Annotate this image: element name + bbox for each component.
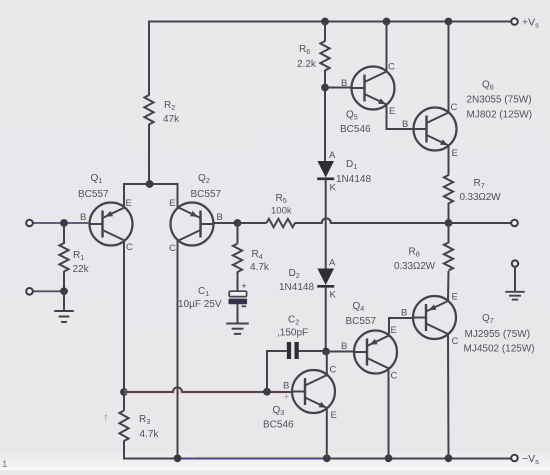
transistor Q4 BC557 [354,331,397,374]
wire -Vs bottom rail left purple tinted segment [195,456,330,459]
svg-text:↑: ↑ [103,412,109,424]
svg-text:R6: R6 [299,44,310,56]
wire Q2 base to R4/R5 node [214,222,241,224]
svg-text:1N4148: 1N4148 [279,282,314,293]
transistor Q7 MJ2955 [413,296,456,339]
svg-text:B: B [401,308,407,319]
svg-text:R1: R1 [73,250,84,262]
resistor R2 [144,95,153,125]
wire R6 top lead [324,22,326,42]
svg-text:Q6: Q6 [482,80,494,92]
svg-text:BC557: BC557 [346,316,377,327]
svg-text:MJ2955 (75W): MJ2955 (75W) [465,329,531,340]
diode D1 1N4148 [317,161,334,178]
svg-text:Q5: Q5 [346,110,358,122]
svg-text:MJ4502 (125W): MJ4502 (125W) [464,344,535,355]
svg-text:+: + [284,392,289,401]
wire R1 top lead [63,223,65,244]
svg-text:K: K [330,290,337,301]
svg-text:BC557: BC557 [191,189,222,200]
node Q2C on rail [174,454,182,462]
node R1/ground junction [60,287,68,295]
wire R2 bottom to emitter bus [148,124,150,184]
svg-text:B: B [402,119,408,130]
resistor R4 4.7k [233,244,242,273]
svg-text:D1: D1 [346,159,357,171]
wire R3 bottom lead [123,441,125,459]
svg-text:0.33Ω2W: 0.33Ω2W [460,192,502,203]
wire D2 cathode to Q4 base node [325,287,327,353]
wire R5 left lead [238,222,267,224]
svg-text:,150pF: ,150pF [277,328,308,339]
wire Q1 emitter riser [123,183,125,208]
diode D2 1N4148 [317,269,334,286]
capacitor C2 150pF [287,342,291,359]
ground input [54,310,74,312]
svg-text:E: E [126,198,132,209]
node Q3E on rail [323,454,331,462]
wire left rail drop to R2 [148,21,150,96]
wire R7 to output node [448,203,450,223]
wire C2 left lead down to Q3 base node [267,351,287,392]
wire R8 top lead [448,223,450,243]
svg-text:Q2: Q2 [198,173,210,185]
wire input lower to R1 [33,290,64,292]
svg-text:−Vs: −Vs [522,453,539,466]
node top rail Q6C junction [445,18,453,26]
node R2/emitter-bus junction [146,180,154,188]
svg-text:10µF 25V: 10µF 25V [178,299,222,310]
svg-text:BC546: BC546 [263,420,294,431]
svg-text:R7: R7 [474,178,485,190]
svg-text:E: E [452,148,458,159]
wire C1 to ground [237,304,239,324]
wire R1 bottom lead [63,271,65,292]
capacitor C1 10uF electrolytic top plate [229,291,246,296]
svg-text:MJ802 (125W): MJ802 (125W) [467,110,533,121]
svg-text:D2: D2 [289,268,300,280]
terminal input top [26,220,33,227]
svg-text:0.33Ω2W: 0.33Ω2W [394,261,436,272]
node input/R1 junction [60,219,68,227]
wire Q2 emitter riser [177,183,179,208]
ground C1 [226,323,249,325]
transistor Q2 BC557 (mirrored) [171,203,214,246]
wire Q7 collector to -Vs rail [447,334,450,459]
svg-text:C: C [330,365,337,376]
svg-text:A: A [329,150,336,161]
wire Q7 emitter to R8 [447,271,450,301]
wire Q1/Q2 emitter bus [124,183,178,185]
svg-text:Q3: Q3 [273,405,285,417]
node R6/Q5B/D1 junction [321,84,329,92]
terminal output [511,220,518,227]
svg-text:1: 1 [2,459,7,470]
wire -Vs bottom rail right segment [330,458,515,460]
node output junction [445,219,453,227]
svg-text:4.7k: 4.7k [250,262,270,273]
svg-text:+: + [241,281,247,292]
node top rail Q5C junction [383,18,391,26]
wire Q5 emitter to Q6 base [387,105,414,130]
node top rail R6 junction [321,18,329,26]
terminal +Vs [511,18,518,25]
wire C2 right lead [299,350,327,352]
wire R4 top lead [237,223,239,244]
svg-text:E: E [452,292,458,303]
svg-text:1N4148: 1N4148 [336,174,371,185]
svg-text:B: B [341,341,347,352]
resistor R8 0.33ohm 2W [444,243,453,271]
svg-text:E: E [169,198,175,209]
svg-text:R4: R4 [252,249,263,261]
transistor Q1 BC557 [90,203,133,246]
terminal input bottom [26,288,33,295]
svg-text:C: C [451,102,458,113]
svg-text:B: B [80,212,86,223]
ground symbol right (speaker return) [512,260,518,266]
wire Q2 collector crossing through hop [177,383,179,400]
svg-text:A: A [329,258,336,269]
resistor R1 [59,243,68,272]
wire to input ground [63,291,65,311]
svg-text:Q7: Q7 [482,313,494,325]
wire Q6 collector to +Vs rail [448,22,450,113]
wire +Vs top rail [149,21,515,23]
svg-text:C: C [452,336,459,347]
wire R3-node to Q3 base with hop, pink tinted [124,390,292,394]
node Q4C on rail [385,454,393,462]
wire Q5 collector to +Vs rail [386,22,388,72]
svg-text:BC546: BC546 [340,124,371,135]
svg-text:R5: R5 [276,193,287,205]
svg-text:C: C [126,242,133,253]
node C2 tee junction [263,388,271,396]
wire R6 bottom to D1 node [324,70,326,162]
transistor Q6 2N3055 [414,108,457,151]
resistor R5 100k [267,219,296,227]
wire Q2 collector to -Vs rail [177,240,179,459]
svg-text:4.7k: 4.7k [140,429,160,440]
svg-text:47k: 47k [163,114,180,125]
wire input to Q1 base [33,222,90,224]
svg-text:2N3055 (75W): 2N3055 (75W) [467,95,532,106]
svg-text:Q1: Q1 [91,173,103,185]
resistor R6 2.2k [320,41,329,71]
wire Q4 emitter to Q7 base [389,318,413,336]
svg-text:R3: R3 [139,414,150,426]
wire Q1 collector to R3 node [123,240,125,393]
svg-text:C: C [169,243,176,254]
svg-text:22k: 22k [73,264,90,275]
svg-text:C2: C2 [288,315,299,327]
node Q7C on rail [445,454,453,462]
svg-text:E: E [331,410,337,421]
node Q2B/R4/R5 junction [234,219,242,227]
svg-text:+Vs: +Vs [522,17,539,30]
capacitor C1 bottom plate [229,299,248,305]
wire Q4 base [326,351,354,353]
svg-text:C: C [391,371,398,382]
transistor Q5 BC546 [352,67,395,110]
wire Q6 emitter to R7 [448,146,450,176]
svg-text:E: E [389,106,395,117]
svg-text:E: E [391,325,397,336]
svg-text:Q4: Q4 [353,301,365,313]
svg-text:R2: R2 [164,100,175,112]
wire R5 to output node with hop over diode chain [295,218,449,223]
svg-text:B: B [341,78,347,89]
svg-text:100k: 100k [271,206,292,217]
svg-text:B: B [217,212,223,223]
capacitor C1 polarity minus [242,305,247,307]
wire Q3 emitter to -Vs rail [326,408,328,459]
wire Q5 base [325,87,352,89]
svg-text:': ' [81,196,83,206]
wire R4 to C1 [237,272,239,292]
svg-text:B: B [283,381,289,392]
wire Q4 collector to -Vs rail [388,369,390,459]
resistor R3 4.7k [123,392,125,411]
svg-text:R8: R8 [409,247,420,259]
node Q1C/R3/Q3-base-wire junction [120,388,128,396]
svg-text:2.2k: 2.2k [297,59,317,70]
svg-text:C1: C1 [198,286,209,298]
transistor Q3 BC546 [292,370,335,413]
resistor R7 0.33ohm 2W [444,175,453,204]
wire Q3 collector to Q4 base node [326,352,328,376]
wire output node to terminal [449,222,512,224]
wire D1 cathode to D2 anode [325,179,327,270]
terminal -Vs [511,455,518,462]
svg-text:C: C [388,62,395,73]
node D2/C2/Q3C/Q4B junction [322,348,330,356]
